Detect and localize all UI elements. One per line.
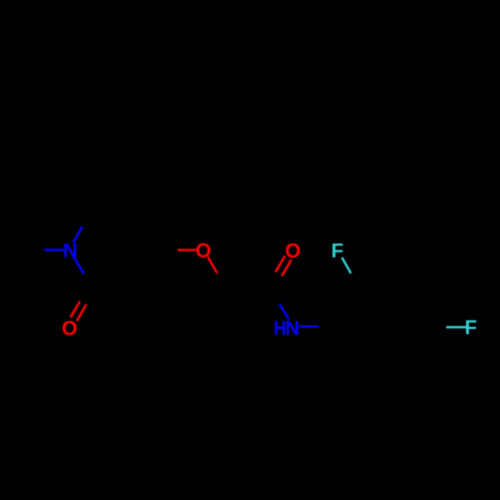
- bond CH3a-N1 (carbon half, invisible): [23, 249, 45, 251]
- bond N1-C6 (carbon half, invisible): [82, 210, 91, 226]
- bond N1-CH3a (nitrogen half): [45, 249, 64, 251]
- bond C2'-F1 (fluorine half): [342, 257, 351, 273]
- bond C3-C2: [94, 288, 138, 290]
- double bond C7=O right line: [282, 260, 292, 276]
- bond C4-Oether (oxygen half): [178, 249, 197, 251]
- bond C7-N2 (carbon half, invisible): [270, 290, 280, 305]
- bond C7-N2 (nitrogen half): [280, 304, 289, 319]
- atom label O amide right: [286, 243, 300, 257]
- bond C2'-F1 (carbon half, invisible): [351, 273, 360, 289]
- atom label H of amide NH: [275, 321, 285, 335]
- double bond C7=O left line: [276, 256, 286, 272]
- benzene ring C6'-C1': [338, 327, 360, 365]
- double bond C2=O right line: [77, 304, 86, 321]
- atom label O ether: [196, 243, 210, 257]
- atom label F2 (para fluorine): [466, 320, 476, 334]
- bond N1-C2 (nitrogen half): [74, 257, 84, 274]
- bond N1-C6 (nitrogen half): [73, 227, 82, 243]
- bond N2-C1ipso (carbon half, invisible): [319, 325, 338, 328]
- benzene ring C5'-C6': [360, 364, 404, 366]
- benzene ring C4'-C5': [404, 327, 426, 365]
- bond C4-Oether (carbon half, invisible): [160, 249, 178, 251]
- bond C2-N1 (carbon half, invisible): [84, 274, 94, 290]
- atom label F1 (ortho fluorine): [333, 243, 343, 257]
- bond Oether-CH2 (oxygen half): [208, 257, 218, 273]
- atom label O amide left: [63, 321, 77, 335]
- atom label N1 (ring nitrogen): [64, 243, 76, 257]
- benzene ring C2'-C3': [360, 288, 404, 290]
- bond C4-C3: [137, 250, 160, 290]
- bond Oether-CH2 (carbon half, invisible): [217, 273, 227, 289]
- bond C4'-F2 (fluorine half): [446, 326, 467, 328]
- benzene ring C1'-C2': [338, 289, 360, 327]
- bond C4'-F2 (carbon half, invisible): [426, 326, 446, 328]
- bond C6-C5: [92, 209, 139, 211]
- bond C5-C4: [138, 210, 160, 250]
- atom label N2 of amide NH: [286, 321, 298, 335]
- double bond C2=O left line: [70, 301, 79, 317]
- benzene ring C3'-C4': [404, 289, 426, 327]
- bond CH2-C7: [227, 288, 270, 290]
- bond N2-C1ipso (nitrogen half): [299, 325, 318, 327]
